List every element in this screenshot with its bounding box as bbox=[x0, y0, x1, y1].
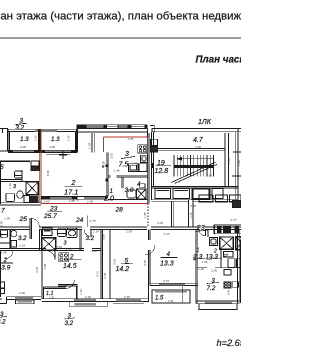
svg-text:1.50: 1.50 bbox=[67, 135, 71, 141]
bath shower bbox=[137, 189, 146, 199]
kitchen counter bbox=[129, 155, 148, 171]
hall wall bbox=[207, 229, 209, 237]
main top wall with windows bbox=[77, 125, 147, 153]
left wc fixtures bbox=[9, 229, 11, 248]
dark shower tray bbox=[30, 196, 39, 203]
door leaf left bbox=[30, 218, 39, 239]
svg-text:2.85: 2.85 bbox=[127, 137, 134, 141]
washer box bbox=[43, 228, 52, 236]
svg-text:0.77: 0.77 bbox=[231, 218, 237, 222]
svg-text:1.46: 1.46 bbox=[132, 162, 138, 166]
svg-text:2.14: 2.14 bbox=[18, 244, 25, 248]
svg-text:1ЛК: 1ЛК bbox=[198, 119, 212, 126]
svg-text:0.84: 0.84 bbox=[56, 245, 62, 249]
svg-text:2.65: 2.65 bbox=[125, 229, 132, 233]
svg-text:5: 5 bbox=[0, 164, 4, 171]
svg-text:СТ: СТ bbox=[224, 253, 229, 257]
svg-text:2.26: 2.26 bbox=[167, 299, 174, 303]
washer boxes below bbox=[224, 252, 234, 257]
svg-text:3.06: 3.06 bbox=[46, 170, 50, 176]
svg-text:2.00: 2.00 bbox=[210, 269, 217, 273]
stair block outer walls bbox=[152, 128, 238, 131]
svg-text:3: 3 bbox=[64, 241, 67, 247]
svg-text:7.2: 7.2 bbox=[207, 285, 216, 292]
bath left wall bbox=[121, 177, 123, 188]
right flat walls bbox=[196, 225, 241, 303]
svg-text:3.75: 3.75 bbox=[90, 219, 96, 223]
right cut shower bbox=[236, 237, 241, 250]
bottom facade left wall + window bbox=[0, 297, 149, 307]
toilet top bbox=[15, 171, 22, 178]
svg-text:3.78: 3.78 bbox=[103, 273, 107, 279]
svg-text:7.5: 7.5 bbox=[119, 162, 129, 169]
svg-text:4.71: 4.71 bbox=[96, 271, 100, 277]
right edge cut marks bbox=[232, 152, 241, 303]
corridor 4.7 bottom / stair top landing bbox=[154, 147, 225, 149]
svg-text:4: 4 bbox=[167, 251, 171, 258]
loggia rail top bbox=[8, 128, 77, 130]
svg-text:4.7: 4.7 bbox=[193, 137, 204, 144]
svg-text:13.9: 13.9 bbox=[0, 265, 11, 272]
shaft double walls bbox=[100, 229, 102, 298]
svg-text:24: 24 bbox=[75, 217, 84, 224]
svg-text:4: 4 bbox=[137, 181, 141, 188]
svg-text:17.1: 17.1 bbox=[64, 188, 78, 197]
svg-text:3.19: 3.19 bbox=[163, 279, 169, 283]
bath bottom bbox=[108, 198, 148, 200]
dashed boundary in corridor bbox=[147, 204, 149, 227]
stair section cut diagonals bbox=[171, 162, 216, 182]
toilet 2 bbox=[6, 193, 14, 201]
svg-text:4.90: 4.90 bbox=[91, 249, 97, 253]
svg-text:25.7: 25.7 bbox=[43, 213, 57, 220]
svg-text:2.14: 2.14 bbox=[92, 230, 99, 234]
svg-text:1.46: 1.46 bbox=[114, 169, 120, 173]
svg-text:12.8: 12.8 bbox=[155, 168, 169, 175]
stair up arrow bbox=[177, 158, 214, 160]
svg-text:3.98: 3.98 bbox=[43, 264, 47, 270]
svg-text:0.84: 0.84 bbox=[227, 289, 231, 295]
sink center bbox=[67, 228, 77, 237]
door arc right hall bbox=[199, 229, 206, 236]
svg-text:3.2: 3.2 bbox=[65, 320, 74, 327]
rail window block bbox=[35, 129, 57, 132]
left cut loggia box bbox=[0, 129, 8, 151]
svg-text:1.3: 1.3 bbox=[51, 136, 60, 143]
toilet center bbox=[57, 228, 66, 236]
shower X right bbox=[220, 237, 233, 249]
svg-text:3.2: 3.2 bbox=[86, 235, 95, 242]
header rule bbox=[0, 37, 241, 39]
hall partition wall bbox=[106, 152, 148, 199]
svg-text:3.93: 3.93 bbox=[113, 259, 117, 265]
main corridor bottom wall bbox=[0, 227, 241, 229]
svg-text:3.2: 3.2 bbox=[18, 235, 27, 242]
svg-text:1.40: 1.40 bbox=[198, 267, 204, 271]
stove room 14.5 bbox=[59, 253, 69, 262]
corridor below stairs walls bbox=[172, 195, 241, 227]
svg-text:28: 28 bbox=[115, 207, 124, 214]
room2 bottom wall with window bbox=[41, 196, 107, 199]
svg-text:1.49: 1.49 bbox=[8, 183, 12, 189]
svg-text:1.50: 1.50 bbox=[34, 135, 38, 141]
shower X box center-left bbox=[42, 238, 56, 250]
svg-text:1.99: 1.99 bbox=[4, 217, 10, 221]
svg-text:1.99: 1.99 bbox=[1, 251, 7, 255]
stove right bbox=[224, 282, 239, 289]
svg-text:2.40: 2.40 bbox=[227, 158, 231, 165]
svg-text:2.62: 2.62 bbox=[110, 153, 114, 160]
svg-text:0.80: 0.80 bbox=[102, 234, 106, 240]
door arc hall2 bbox=[84, 229, 91, 236]
svg-text:3.10: 3.10 bbox=[164, 232, 170, 236]
svg-text:1.24: 1.24 bbox=[88, 143, 92, 149]
svg-text:3: 3 bbox=[13, 184, 16, 190]
sink oval bbox=[17, 191, 23, 199]
loggia 2 bbox=[41, 149, 77, 151]
svg-text:2.0: 2.0 bbox=[103, 194, 114, 203]
kitchen/bath divider bbox=[108, 174, 111, 176]
svg-text:2.48: 2.48 bbox=[65, 247, 72, 251]
loggia 1 bbox=[7, 129, 9, 152]
svg-text:1.82: 1.82 bbox=[69, 199, 75, 203]
bath sink bbox=[127, 190, 136, 198]
svg-text:3.35: 3.35 bbox=[35, 267, 39, 273]
svg-text:2.30: 2.30 bbox=[84, 295, 91, 299]
svg-text:4.89: 4.89 bbox=[49, 145, 55, 149]
survey cross bbox=[59, 151, 67, 159]
stove icon kitchen bbox=[138, 145, 147, 153]
wall rooms5/4 bbox=[145, 229, 155, 301]
balcony label 3/3.2 top-left bbox=[16, 118, 25, 132]
svg-text:2.65: 2.65 bbox=[123, 295, 130, 299]
svg-text:3.2: 3.2 bbox=[0, 319, 6, 326]
svg-text:5.63: 5.63 bbox=[206, 174, 212, 178]
svg-text:3.2: 3.2 bbox=[16, 125, 25, 132]
svg-text:25: 25 bbox=[19, 216, 28, 223]
left flat divider wall bbox=[0, 160, 41, 205]
right flat bottom wall + window + balcony bbox=[196, 301, 239, 309]
svg-text:4.30: 4.30 bbox=[190, 204, 196, 208]
svg-text:3.09: 3.09 bbox=[157, 221, 163, 225]
svg-text:3.35: 3.35 bbox=[143, 260, 147, 266]
svg-text:1.3: 1.3 bbox=[20, 136, 29, 143]
washer bbox=[24, 196, 30, 203]
svg-text:1.66: 1.66 bbox=[202, 260, 208, 264]
red unit outline bbox=[41, 129, 148, 204]
svg-text:3.0: 3.0 bbox=[125, 187, 134, 194]
svg-text:h=2.65: h=2.65 bbox=[217, 338, 242, 348]
stair mid handrail bbox=[174, 165, 214, 168]
balcony 1.5 bbox=[152, 285, 190, 303]
middle band bottom wall bbox=[0, 248, 46, 250]
top boxes right of corridor bbox=[199, 195, 213, 202]
bathtub with X bbox=[26, 182, 38, 195]
svg-text:3.99: 3.99 bbox=[0, 221, 4, 227]
left flat bottom wall bbox=[0, 202, 41, 204]
bottom facade center wall + window bbox=[42, 298, 149, 300]
door arc into room 14.5 bbox=[46, 251, 55, 260]
svg-text:14.2: 14.2 bbox=[116, 266, 130, 273]
room4 bottom wall + window bbox=[150, 283, 198, 285]
svg-text:1.65: 1.65 bbox=[44, 200, 50, 204]
svg-text:2.36: 2.36 bbox=[18, 291, 25, 295]
svg-text:1.90: 1.90 bbox=[87, 200, 93, 204]
center balcony below bbox=[70, 301, 108, 306]
stair block top corner bbox=[150, 125, 241, 200]
staircase treads bbox=[171, 155, 217, 183]
svg-text:7: 7 bbox=[1, 208, 5, 215]
svg-text:1.48: 1.48 bbox=[143, 212, 147, 218]
svg-text:14.5: 14.5 bbox=[63, 263, 77, 270]
left kitchen boxes bbox=[31, 161, 39, 166]
room 14.5 right wall lower + door bbox=[42, 251, 78, 299]
left radiators bbox=[0, 282, 5, 294]
appliance row top bbox=[214, 224, 242, 226]
svg-text:2.49: 2.49 bbox=[237, 160, 241, 167]
svg-text:План этажа (части этажа), план: План этажа (части этажа), план объекта н… bbox=[0, 11, 241, 23]
svg-text:3: 3 bbox=[125, 151, 129, 158]
svg-text:1.5: 1.5 bbox=[155, 296, 164, 302]
svg-text:1.52: 1.52 bbox=[79, 289, 83, 295]
kitchen sink right flat bbox=[210, 238, 218, 246]
svg-text:13.3: 13.3 bbox=[160, 261, 174, 268]
wall between bath and hall2 bbox=[78, 229, 80, 250]
svg-text:4.90: 4.90 bbox=[20, 145, 26, 149]
svg-text:7.26: 7.26 bbox=[195, 145, 201, 149]
wall left of shower bbox=[39, 229, 41, 250]
left building edge (cut) bbox=[0, 161, 2, 297]
svg-text:План части этажа: План части этажа bbox=[196, 55, 242, 66]
elevator row bbox=[152, 186, 238, 201]
vent box bbox=[140, 184, 145, 188]
svg-text:1.47: 1.47 bbox=[189, 212, 193, 218]
